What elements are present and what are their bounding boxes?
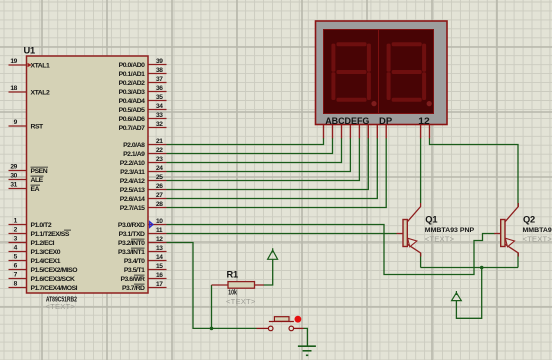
svg-text:P2.4/A12: P2.4/A12: [120, 178, 145, 185]
svg-text:28: 28: [156, 201, 163, 208]
svg-text:ALE: ALE: [31, 177, 44, 184]
junction node emitter rail: [480, 266, 484, 270]
svg-text:P0.5/AD5: P0.5/AD5: [119, 107, 146, 114]
pin 27 P2.6/A14 (right): [148, 198, 167, 200]
pin 30 ALE (left): [9, 179, 27, 181]
pin 4 P1.3/CEX0 (left): [9, 251, 27, 253]
svg-text:36: 36: [156, 85, 163, 92]
pin 26 P2.5/A13 (right): [148, 189, 167, 191]
svg-text:P2.2/A10: P2.2/A10: [120, 160, 145, 167]
svg-text:P0.7/AD7: P0.7/AD7: [119, 125, 146, 132]
pin 5 P1.4/CEX1 (left): [9, 260, 27, 262]
transistor Q2 MMBTA93 PNP: [494, 203, 518, 257]
svg-text:22: 22: [156, 147, 163, 154]
svg-text:P2.6/A14: P2.6/A14: [120, 196, 145, 203]
svg-text:26: 26: [156, 183, 163, 190]
svg-text:P1.1/T2EX/SS: P1.1/T2EX/SS: [31, 231, 70, 238]
wire P3.2 to button / R1 node: [167, 243, 257, 329]
display pin E: [358, 125, 360, 139]
pin 14 P3.4/T0 (right): [148, 260, 167, 262]
svg-text:<TEXT>: <TEXT>: [46, 302, 76, 311]
wire net P2.0 to display pin A: [167, 138, 324, 145]
svg-text:18: 18: [10, 85, 17, 92]
pin 23 P2.2/A10 (right): [148, 162, 167, 164]
svg-text:Q2: Q2: [523, 214, 535, 224]
display pin B: [332, 125, 334, 139]
svg-text:XTAL1: XTAL1: [31, 63, 50, 70]
pin 24 P2.3/A11 (right): [148, 171, 167, 173]
svg-text:P3.3/INT1: P3.3/INT1: [118, 249, 145, 256]
power symbol near R1: [268, 250, 278, 259]
svg-text:P3.6/WR: P3.6/WR: [120, 276, 145, 283]
wire net P2.4 to display pin E: [167, 138, 360, 181]
svg-text:10k: 10k: [228, 290, 237, 297]
svg-text:15: 15: [156, 263, 163, 270]
svg-text:P3.7/RD: P3.7/RD: [122, 285, 145, 292]
pin 2 P1.1/T2EX/SS (left): [9, 233, 27, 235]
display pin D: [349, 125, 351, 139]
svg-text:P2.7/A15: P2.7/A15: [120, 205, 145, 212]
pin 38 P0.1/AD1 (right): [148, 73, 167, 75]
digit 2 segments: [387, 42, 432, 106]
pin 31 EA (left): [9, 188, 27, 190]
wire P3.1 to Q1 base: [167, 233, 397, 235]
svg-text:P1.6/CEX3/SCK: P1.6/CEX3/SCK: [31, 276, 76, 283]
pin 10 blue marker: [150, 222, 153, 228]
button left pin: [257, 327, 269, 329]
pin 11 P3.1/TXD (right): [148, 233, 167, 235]
svg-text:MMBTA93 PNP: MMBTA93 PNP: [523, 227, 552, 234]
display pin C: [341, 125, 343, 139]
svg-text:P1.3/CEX0: P1.3/CEX0: [31, 249, 61, 256]
pin 12 P3.2/INT0 (right): [148, 242, 167, 244]
svg-text:P1.0/T2: P1.0/T2: [31, 222, 52, 229]
svg-text:P0.0/AD0: P0.0/AD0: [119, 62, 146, 69]
wire R1 right to power: [264, 259, 273, 285]
svg-text:11: 11: [156, 227, 163, 234]
pin 19 XTAL1 (left): [9, 64, 27, 66]
svg-text:P1.4/CEX1: P1.4/CEX1: [31, 258, 61, 265]
pin 28 P2.7/A15 (right): [148, 207, 167, 209]
junction node R1/button: [210, 327, 214, 331]
pin 13 P3.3/INT1 (right): [148, 251, 167, 253]
transistor Q1 MMBTA93 PNP: [397, 203, 421, 257]
pin 3 P1.2/ECI (left): [9, 242, 27, 244]
svg-text:P3.5/T1: P3.5/T1: [124, 267, 145, 274]
svg-text:31: 31: [10, 182, 17, 189]
svg-text:16: 16: [156, 272, 163, 279]
svg-text:P2.3/A11: P2.3/A11: [120, 169, 145, 176]
wire display pin1 to Q1 collector: [420, 138, 422, 203]
svg-text:32: 32: [156, 121, 163, 128]
svg-text:PSEN: PSEN: [31, 168, 48, 175]
svg-text:P3.4/T0: P3.4/T0: [124, 258, 145, 265]
wire emitter rail to power symbol: [456, 268, 481, 319]
svg-text:35: 35: [156, 94, 163, 101]
wire net P2.7 to display pin DP: [167, 138, 387, 208]
svg-text:P0.2/AD2: P0.2/AD2: [119, 80, 146, 87]
wire Q1 emitter down: [420, 253, 422, 268]
svg-text:17: 17: [156, 281, 163, 288]
display pin DP: [385, 125, 387, 139]
wire display pin2 to Q2 collector: [430, 138, 519, 207]
svg-text:10: 10: [156, 218, 163, 225]
svg-text:EA: EA: [31, 186, 40, 193]
svg-text:<TEXT>: <TEXT>: [523, 234, 552, 243]
svg-text:33: 33: [156, 112, 163, 119]
pin 19 XTAL1 red marker: [28, 63, 32, 67]
button cap: [274, 317, 289, 322]
button right terminal: [289, 326, 294, 331]
7seg display outer frame: [316, 21, 448, 125]
pin 34 P0.5/AD5 (right): [148, 109, 167, 111]
svg-text:29: 29: [10, 164, 17, 171]
pin 6 P1.5/CEX2/MISO (left): [9, 269, 27, 271]
pin 15 P3.5/T1 (right): [148, 269, 167, 271]
display pin F: [367, 125, 369, 139]
pin 36 P0.3/AD3 (right): [148, 91, 167, 93]
wire net P2.1 to display pin B: [167, 138, 333, 154]
svg-text:12: 12: [418, 116, 430, 126]
svg-text:XTAL2: XTAL2: [31, 90, 50, 97]
pin 1 P1.0/T2 (left): [9, 224, 27, 226]
pin 35 P0.4/AD4 (right): [148, 100, 167, 102]
pin 18 XTAL2 (left): [9, 91, 27, 93]
svg-text:P1.7/CEX4/MOSI: P1.7/CEX4/MOSI: [31, 285, 78, 292]
svg-text:25: 25: [156, 174, 163, 181]
svg-text:12: 12: [156, 236, 163, 243]
svg-text:Q1: Q1: [425, 214, 437, 224]
digit divider: [378, 30, 380, 114]
pin 7 P1.6/CEX3/SCK (left): [9, 278, 27, 280]
wire net P2.2 to display pin C: [167, 138, 342, 163]
svg-text:23: 23: [156, 156, 163, 163]
svg-text:39: 39: [156, 58, 163, 65]
svg-text:P0.1/AD1: P0.1/AD1: [119, 71, 146, 78]
display pin 1: [420, 125, 422, 139]
svg-text:<TEXT>: <TEXT>: [226, 297, 256, 306]
wire emitter rail: [421, 267, 518, 269]
pin 16 P3.6/WR (right): [148, 278, 167, 280]
pin 9 RST (left): [9, 125, 27, 127]
svg-text:24: 24: [156, 165, 163, 172]
svg-text:P0.3/AD3: P0.3/AD3: [119, 89, 146, 96]
svg-text:R1: R1: [227, 270, 239, 280]
wire net P2.6 to display pin G: [167, 138, 378, 199]
svg-text:P2.0/A8: P2.0/A8: [123, 142, 145, 149]
svg-text:P1.2/ECI: P1.2/ECI: [31, 240, 55, 247]
svg-text:34: 34: [156, 103, 163, 110]
pin 22 P2.1/A9 (right): [148, 153, 167, 155]
pin 33 P0.6/AD6 (right): [148, 118, 167, 120]
pin 29 PSEN (left): [9, 170, 27, 172]
pin 21 P2.0/A8 (right): [148, 144, 167, 146]
svg-text:P2.5/A13: P2.5/A13: [120, 187, 145, 194]
svg-text:38: 38: [156, 67, 163, 74]
wire Q2 emitter down: [517, 253, 519, 268]
7seg display inner panel: [324, 30, 434, 114]
button right pin: [294, 327, 304, 329]
svg-text:P1.5/CEX2/MISO: P1.5/CEX2/MISO: [31, 267, 78, 274]
pin 17 P3.7/RD (right): [148, 287, 167, 289]
svg-text:P0.4/AD4: P0.4/AD4: [119, 98, 146, 105]
pin 25 P2.4/A12 (right): [148, 180, 167, 182]
svg-text:DP: DP: [379, 116, 392, 126]
pin 8 P1.7/CEX4/MOSI (left): [9, 287, 27, 289]
svg-text:37: 37: [156, 76, 163, 83]
button red actuator: [295, 316, 302, 323]
button left terminal: [268, 326, 273, 331]
R1 right pin: [255, 284, 264, 286]
pin 37 P0.2/AD2 (right): [148, 82, 167, 84]
pin 10 P3.0/RXD (right): [148, 224, 167, 226]
svg-text:ABCDEFG: ABCDEFG: [325, 116, 369, 126]
wire net P2.5 to display pin F: [167, 138, 369, 190]
svg-text:P2.1/A9: P2.1/A9: [123, 151, 145, 158]
pin 32 P0.7/AD7 (right): [148, 127, 167, 129]
svg-text:21: 21: [156, 138, 163, 145]
digit 1 segments: [331, 42, 376, 106]
svg-text:P0.6/AD6: P0.6/AD6: [119, 116, 146, 123]
svg-text:27: 27: [156, 192, 163, 199]
pin 39 P0.0/AD0 (right): [148, 64, 167, 66]
wire net P2.3 to display pin D: [167, 138, 351, 172]
R1 left pin: [212, 284, 229, 286]
display pin G: [376, 125, 378, 139]
ground symbol: [298, 346, 316, 355]
svg-text:RST: RST: [31, 124, 45, 131]
wire P3.0 to Q2 base: [167, 225, 495, 275]
svg-text:13: 13: [156, 245, 163, 252]
wire R1 left to node: [211, 285, 213, 328]
svg-text:P3.2/INT0: P3.2/INT0: [118, 240, 145, 247]
resistor R1 body: [228, 282, 255, 289]
svg-text:14: 14: [156, 254, 163, 261]
display pin A: [323, 125, 325, 139]
chip U1 AT89C51RB2 body: [27, 56, 149, 293]
button plate: [269, 321, 294, 323]
power symbol for emitters: [452, 293, 462, 301]
svg-text:P3.0/RXD: P3.0/RXD: [118, 222, 145, 229]
svg-text:<TEXT>: <TEXT>: [425, 234, 455, 243]
display pin 2: [429, 125, 431, 139]
svg-text:U1: U1: [24, 46, 36, 56]
wire button right to ground: [304, 328, 308, 346]
svg-text:19: 19: [10, 58, 17, 65]
svg-text:30: 30: [10, 173, 17, 180]
svg-text:P3.1/TXD: P3.1/TXD: [119, 231, 145, 238]
svg-text:MMBTA93 PNP: MMBTA93 PNP: [425, 227, 475, 234]
